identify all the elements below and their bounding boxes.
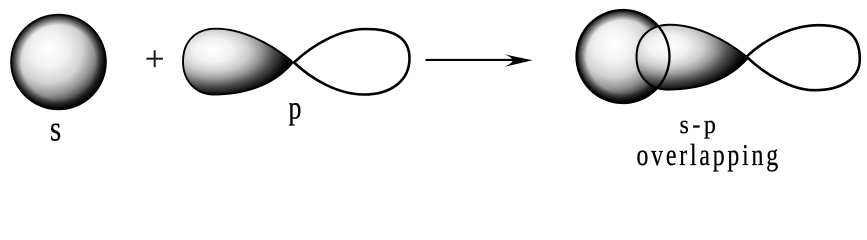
svg-text:overlapping: overlapping <box>636 137 780 172</box>
svg-text:s-p: s-p <box>679 110 719 139</box>
svg-text:s: s <box>50 110 61 149</box>
svg-text:p: p <box>289 91 302 127</box>
